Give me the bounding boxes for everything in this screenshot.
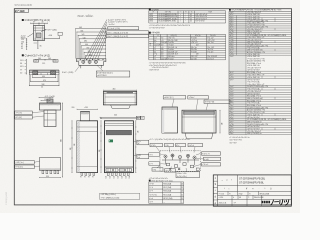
title: capacity spec table (149, 32, 151, 34)
right dims of option view (219, 110, 221, 133)
option side mini view (162, 107, 178, 133)
stacked horizontal dimension lines (76, 28, 106, 30)
logo: company mark (262, 201, 270, 204)
revision box top-left (14, 9, 28, 13)
title block rows (218, 184, 292, 186)
row3: scale / drawing no (227, 191, 229, 195)
vertical label column (delivery spec) (217, 175, 219, 206)
svg-text:WH-C2011-0045: WH-C2011-0045 (15, 5, 33, 7)
front view lower details (105, 166, 134, 168)
title: product number table (149, 8, 151, 10)
label: dim drawing with base leg (22, 19, 24, 21)
overall height dim for left details (62, 103, 64, 177)
callout boxes above option top view (163, 96, 186, 99)
exhaust stub on side view top (81, 111, 90, 121)
front view of unit (105, 121, 134, 173)
table: full specification (229, 11, 246, 134)
dim drawing A2: channel bracket (35, 59, 45, 61)
labels above piping schematic (150, 143, 163, 146)
table: product numbers (149, 11, 226, 14)
table: capacity spec (149, 34, 226, 36)
anchor base plate with bolt holes (76, 59, 106, 66)
title block outer (213, 175, 291, 206)
piping labels right (202, 152, 221, 155)
label box: hex bolts (96, 71, 130, 77)
title: full specification table (229, 9, 231, 11)
side view body (77, 121, 98, 173)
scan noise overlay (0, 0, 1, 1)
row1: product name (237, 175, 239, 192)
table: connection sizes (149, 181, 184, 183)
labels: intake / exhaust ports (15, 111, 33, 115)
leader lines from callouts to anchor holes (84, 20, 107, 61)
piping schematic dashed boundary (160, 151, 201, 172)
exhaust adapter leader text right of A1 (41, 30, 46, 32)
title: connection size table (149, 180, 151, 182)
labels: bottom connections (15, 161, 35, 165)
border frame (14, 9, 291, 205)
top view of unit above front view (103, 91, 136, 105)
brand badge (109, 140, 113, 143)
option top view (182, 110, 216, 133)
piping labels left (149, 153, 160, 156)
labels right of front view (137, 140, 149, 145)
row4: small cells (231, 195, 233, 199)
row5: date + logo (231, 199, 233, 206)
left dim column of side view (71, 121, 73, 173)
detail view: top exhaust intake (left) (39, 97, 53, 99)
label: dim drawing without base leg (22, 54, 24, 56)
louver band (106, 130, 131, 135)
below column vertical dim (37, 41, 39, 49)
dim drawing A1: side column with exhaust adapter (31, 22, 40, 24)
right dim column of front view (135, 121, 137, 173)
center dim chain between views (100, 121, 102, 173)
piping labels bottom (152, 168, 163, 171)
svg-text:C-063(1)-0425: C-063(1)-0425 (6, 191, 8, 205)
piping schematic symbols (164, 155, 167, 158)
detail view: bottom piping (left) (40, 158, 61, 171)
